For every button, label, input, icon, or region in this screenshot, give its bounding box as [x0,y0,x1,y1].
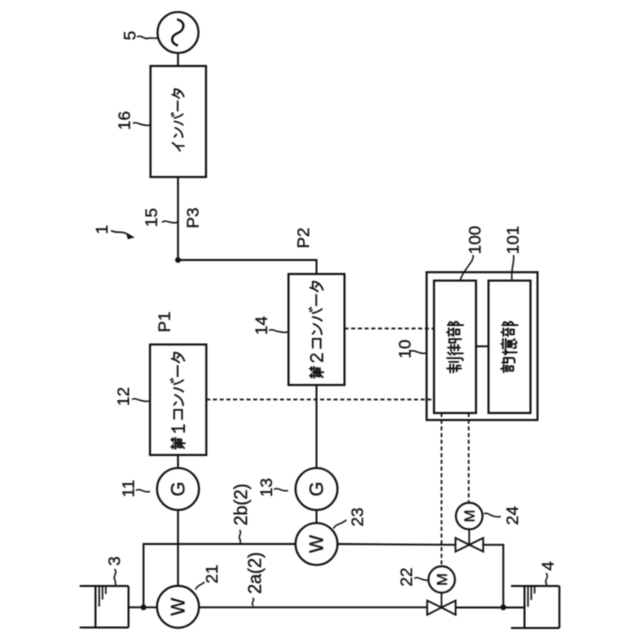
wire G11 to water turbine W21 [177,510,179,586]
first converter box 12 [150,345,206,456]
leader for 24 [484,513,501,517]
label 11 [119,480,138,498]
svg-text:4: 4 [539,561,558,570]
valve 24 [456,538,470,552]
label P2 [294,228,313,249]
svg-text:M: M [461,510,478,523]
valve 22 [427,601,441,615]
leader for 11 [136,490,150,492]
leader for 2b(2) [239,530,240,543]
water turbine W23 [296,523,338,565]
svg-text:2a(2): 2a(2) [245,552,265,594]
label 15 [142,208,161,227]
svg-text:5: 5 [121,31,140,40]
leader for 2a(2) [252,598,253,606]
second converter box 14 [289,274,345,385]
svg-text:12: 12 [114,387,133,406]
leader for 22 [415,578,429,581]
water turbine W21 [157,586,199,628]
dashed control line from converter 12 [206,399,434,401]
inverter box 16 [151,66,207,177]
svg-text:G: G [307,482,328,497]
label P3 [184,208,203,229]
wire converter 14 to generator G13 [316,385,318,468]
junction node at tank 3 [141,604,147,610]
pipe 2b from W23 to valve 24 [338,543,456,546]
svg-text:24: 24 [503,506,522,525]
label 1 with arrow [93,225,112,234]
label 100 [466,226,485,254]
memory unit box 101 [489,281,531,413]
leader for 5 [137,36,158,38]
svg-text:W: W [169,598,190,616]
svg-text:14: 14 [252,316,271,335]
svg-text:16: 16 [115,111,134,130]
svg-text:P3: P3 [184,208,203,229]
leader for 21 [196,582,205,590]
tank 3 [80,585,129,587]
leader for 100 [460,255,473,281]
svg-text:11: 11 [119,480,138,498]
label 2a(2) [245,552,265,594]
label 3 [105,556,124,565]
stem M22 to valve 22 [441,593,443,608]
wire converter 12 to generator G11 [177,455,179,468]
svg-text:13: 13 [257,478,276,497]
motor M22 [429,566,455,592]
label 5 [121,31,140,40]
junction node before tank 4 [500,604,506,610]
controller outer box 10 [427,272,538,420]
svg-text:3: 3 [105,556,124,565]
svg-text:15: 15 [142,208,161,227]
control unit box 100 [434,281,476,413]
control unit text (seigyobu) [447,322,463,373]
dashed control line from converter 14 [345,328,435,330]
connector between 100 and 101 [476,345,489,347]
pipe 2a valve 22 to junction and tank 4 [456,607,525,609]
leader for 15 [162,221,178,223]
svg-text:G: G [169,482,190,497]
label 16 [115,111,134,130]
sine wave inside AC source [172,19,183,45]
svg-text:M: M [434,573,451,586]
pipe 2a from W21 to valve 22 [144,606,428,608]
label 4 [539,561,558,570]
label 23 [348,508,367,527]
wire node to second converter (P2 branch) [178,260,317,274]
label 101 [504,226,523,254]
motor M24 [456,503,483,530]
AC source 5 [158,12,199,53]
generator G11 [157,468,199,510]
tank 4 [511,585,559,587]
label 14 [252,316,271,335]
pipe tank3 to node [129,606,144,608]
first converter text [171,353,185,449]
second converter text [309,282,323,378]
generator G13 [296,468,338,510]
leader for 16 [133,123,150,126]
svg-text:21: 21 [203,565,222,584]
label 12 [114,387,133,406]
label 22 [397,568,416,587]
junction node P3 [175,257,181,263]
svg-text:100: 100 [466,226,485,254]
label 21 [203,565,222,584]
svg-text:10: 10 [396,340,415,359]
label 24 [503,506,522,525]
memory unit text (kiokubu) [501,322,518,372]
stem M24 to valve 24 [468,529,470,545]
wire G13 to water turbine W23 [316,510,318,523]
svg-text:P1: P1 [155,312,174,333]
label 2b(2) [231,483,251,525]
label 10 [396,340,415,359]
leader for 3 [114,569,116,586]
leader for 14 [269,330,288,333]
svg-text:22: 22 [397,568,416,587]
svg-text:23: 23 [348,508,367,527]
wire inverter to node P3 [177,177,179,260]
pipe 2b valve 24 to down corner [483,545,503,608]
svg-text:2b(2): 2b(2) [231,483,251,525]
dashed control line to valve motor M22 [441,413,443,566]
leader for 13 [274,489,288,491]
leader for 4 [546,573,548,586]
leader for 101 [512,255,514,281]
wire AC source to inverter [177,53,179,66]
leader for 10 [411,351,426,354]
svg-text:W: W [307,535,328,553]
inverter text (katakana) [171,89,184,151]
pipe 2b riser [144,544,296,607]
leader for 12 [132,399,150,402]
dashed control line to valve motor M24 [468,413,470,503]
leader for 23 [334,520,347,529]
label P1 [155,312,174,333]
label 13 [257,478,276,497]
svg-text:1: 1 [93,225,112,234]
svg-text:P2: P2 [294,228,313,249]
svg-text:101: 101 [504,226,523,254]
